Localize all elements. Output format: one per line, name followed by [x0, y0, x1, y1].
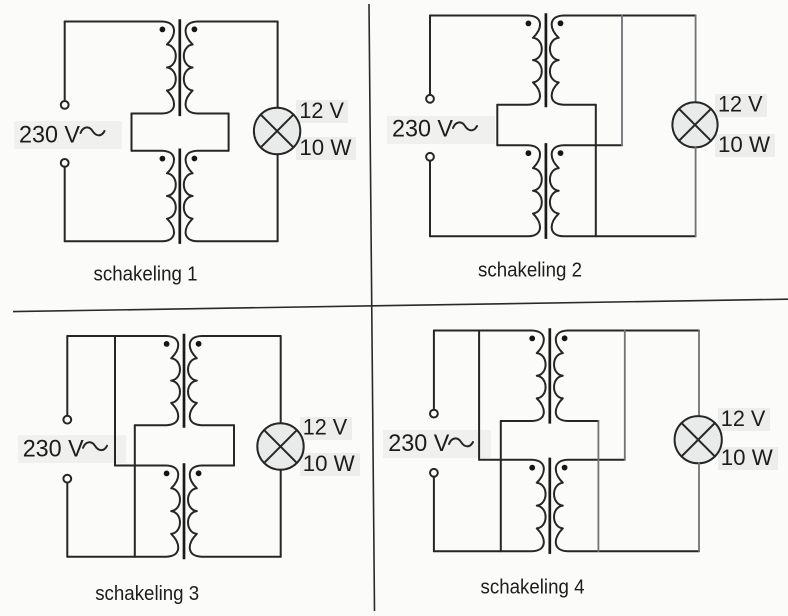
- lamp cross stroke 1: [264, 430, 297, 463]
- svg-text:10 W: 10 W: [299, 135, 352, 160]
- svg-text:230 V: 230 V: [392, 116, 453, 143]
- polarity dot: T3b secondary: [196, 470, 202, 476]
- lamp cross stroke 2: [679, 109, 711, 141]
- transformer T4a secondary winding (top right): [554, 331, 699, 422]
- transformer T3b core: [183, 463, 186, 559]
- svg-text:230 V: 230 V: [19, 121, 80, 148]
- polarity dot: T4a secondary: [562, 335, 568, 341]
- svg-text:230 V: 230 V: [23, 435, 84, 462]
- AC waveform symbol (circuit 1): [81, 127, 105, 135]
- lamp cross stroke 1: [261, 115, 294, 148]
- wire: primary return (box left edge, circuit 3): [134, 425, 136, 557]
- polarity dot: T1a primary: [160, 27, 166, 33]
- wire: primary parallel link (branch vertical, circuit 3): [114, 336, 116, 466]
- lamp La4 12 V 10 W: [675, 416, 722, 463]
- svg-text:10 W: 10 W: [721, 445, 774, 470]
- wire: source bottom lead (circuit 3): [66, 483, 68, 557]
- wire: secondary parallel link down (circuit 2): [595, 105, 597, 237]
- lamp La2 12 V 10 W: [672, 102, 717, 147]
- lamp cross stroke 1: [679, 109, 711, 141]
- wire: lamp bottom lead (circuit 4): [698, 463, 700, 551]
- lamp La1 12 V 10 W: [254, 108, 300, 154]
- transformer T3a core: [183, 334, 186, 428]
- lamp cross stroke 1: [682, 423, 715, 456]
- svg-text:schakeling 2: schakeling 2: [478, 259, 582, 281]
- wire: source top lead (circuit 2): [429, 16, 431, 95]
- wire: source top lead (circuit 1): [64, 22, 66, 102]
- wire: source bottom lead (circuit 4): [433, 477, 435, 552]
- wire: primary parallel branch (circuit 4): [478, 331, 480, 460]
- circuit 2: schakeling 2 (series primaries, parallel secondaries): [387, 13, 775, 281]
- wire: lamp bottom lead (circuit 3): [280, 470, 282, 557]
- polarity dot: T4b primary: [529, 465, 535, 471]
- svg-text:schakeling 4: schakeling 4: [481, 577, 585, 599]
- polarity dot: T4b secondary: [562, 465, 568, 471]
- polarity dot: T3b primary: [164, 471, 170, 477]
- svg-text:12 V: 12 V: [721, 406, 766, 431]
- svg-text:schakeling 1: schakeling 1: [94, 264, 198, 286]
- svg-text:schakeling 3: schakeling 3: [95, 583, 199, 605]
- polarity dot: T1a secondary: [192, 26, 198, 32]
- lamp La3 12 V 10 W: [257, 423, 303, 469]
- terminal: source terminal lower (circuit 1): [61, 159, 69, 167]
- polarity dot: T4a primary: [529, 336, 535, 342]
- lamp cross stroke 2: [261, 115, 294, 148]
- transformer T4a primary winding (top left): [434, 331, 546, 422]
- transformer T3b secondary winding (bottom right): [188, 466, 281, 557]
- polarity dot: T3a primary: [164, 341, 170, 347]
- transformer T1b secondary winding (bottom right): [184, 151, 278, 242]
- circuit 4: schakeling 4 (parallel primaries, parallel secondaries): [383, 328, 778, 598]
- wire: secondary link down (box right edge, circuit 4): [597, 421, 599, 551]
- svg-text:12 V: 12 V: [299, 98, 344, 123]
- wire: lamp top lead (circuit 4): [698, 331, 700, 417]
- terminal: source terminal lower (circuit 2): [426, 153, 434, 161]
- wire: source top lead (circuit 3): [66, 336, 68, 416]
- transformer T2a core: [545, 13, 548, 107]
- wire: series link left (box left edge, circuit 2): [496, 105, 498, 146]
- polarity dot: T2b primary: [526, 150, 532, 156]
- polarity dot: T2b secondary: [558, 150, 564, 156]
- transformer T2b primary winding (bottom left): [430, 145, 542, 236]
- AC waveform symbol (circuit 3): [83, 442, 107, 450]
- wire: series link left (box left edge, circuit 1): [131, 114, 133, 151]
- divider: horizontal rule between rows: [13, 299, 788, 311]
- svg-text:230 V: 230 V: [388, 430, 449, 457]
- AC waveform symbol (circuit 4): [449, 438, 473, 446]
- wire: lamp bottom lead (circuit 1): [277, 154, 279, 241]
- transformer T4b secondary winding (bottom right): [554, 460, 699, 552]
- transformer T1a secondary winding (top right): [184, 22, 278, 114]
- terminal: source terminal upper (circuit 2): [426, 95, 434, 103]
- polarity dot: T1b primary: [160, 156, 166, 162]
- wire: secondary series link (box right edge, circuit 3): [233, 425, 235, 465]
- wire: source bottom lead (circuit 2): [429, 161, 431, 237]
- wire: primary return (box left edge, circuit 4): [500, 421, 502, 551]
- transformer T3a primary winding (top left): [67, 336, 180, 425]
- transformer T3a secondary winding (top right): [188, 336, 281, 425]
- transformer T1a core: [178, 19, 181, 116]
- terminal: source terminal upper (circuit 1): [61, 101, 69, 109]
- wire: lamp top lead (circuit 1): [277, 22, 279, 108]
- polarity dot: T1b secondary: [192, 156, 198, 162]
- transformer T1b core: [178, 149, 181, 244]
- wire: source bottom lead (circuit 1): [64, 167, 66, 242]
- transformer T2a secondary winding (top right): [550, 16, 696, 105]
- transformer T2b secondary winding (bottom right): [550, 145, 696, 236]
- terminal: source terminal upper (circuit 4): [430, 410, 438, 418]
- circuit 3: schakeling 3 (parallel primaries, series secondaries): [18, 334, 360, 605]
- transformer T2a primary winding (top left): [430, 16, 542, 105]
- wire: secondary parallel branch (circuit 4): [624, 331, 626, 460]
- svg-text:12 V: 12 V: [718, 92, 763, 117]
- svg-text:10 W: 10 W: [303, 451, 356, 476]
- polarity dot: T3a secondary: [196, 341, 202, 347]
- svg-text:10 W: 10 W: [718, 132, 771, 157]
- lamp cross stroke 2: [264, 430, 297, 463]
- terminal: source terminal upper (circuit 3): [63, 416, 71, 424]
- lamp cross stroke 2: [682, 423, 715, 456]
- transformer T4b primary winding (bottom left): [434, 460, 546, 552]
- wire: source top lead (circuit 4): [433, 331, 435, 410]
- terminal: source terminal lower (circuit 3): [63, 475, 71, 483]
- transformer T2b core: [545, 143, 548, 239]
- polarity dot: T2a primary: [526, 21, 532, 27]
- terminal: source terminal lower (circuit 4): [430, 469, 438, 477]
- divider: vertical rule between columns: [369, 4, 375, 611]
- transformer T1b primary winding (bottom left): [65, 151, 176, 242]
- wire: lamp top lead (circuit 3): [280, 336, 282, 423]
- wire: secondary parallel link up (circuit 2): [621, 16, 623, 146]
- AC waveform symbol (circuit 2): [453, 122, 477, 130]
- transformer T3b primary winding (bottom left): [67, 466, 180, 557]
- wire: lamp top lead (circuit 2): [695, 16, 697, 103]
- transformer T4a core: [548, 328, 551, 423]
- wire: series link right (box right edge, circuit 1): [228, 114, 230, 151]
- wire: lamp bottom lead (circuit 2): [695, 147, 697, 236]
- circuit 1: schakeling 1 (series primaries, series secondaries): [14, 19, 356, 285]
- svg-text:12 V: 12 V: [303, 415, 348, 440]
- polarity dot: T2a secondary: [558, 20, 564, 26]
- transformer T4b core: [548, 458, 551, 554]
- transformer T1a primary winding (top left): [65, 22, 176, 114]
